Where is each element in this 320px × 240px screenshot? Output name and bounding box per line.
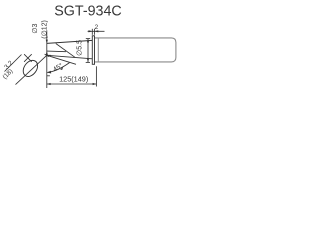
angle arc [47,63,69,73]
cone bottom edge [47,55,93,59]
ring (front collar) [92,36,94,65]
svg-text:2: 2 [95,24,99,31]
bevel edge line [47,50,66,53]
arrow 125 left [47,83,51,85]
bevel face ellipse [20,58,40,80]
bevel cut diagonal [56,44,75,58]
tick at junction [47,54,51,56]
tick at diagonal start [45,54,49,57]
arrow d5.5 bottom [87,59,89,63]
svg-text:∅3: ∅3 [32,24,39,34]
arrow d3 bottom [46,51,48,55]
tick d5.5 top [86,38,90,40]
arrow 2 right [95,30,99,32]
barrel front seam [97,38,99,62]
dim line d3 / left extension (vertical at tip end) [46,30,48,88]
barrel (handle sleeve) [95,38,176,62]
cross mark above ellipse [24,54,32,62]
tick d5.5 bottom [86,61,90,63]
leader line for 3.2/(18) labels [5,55,22,72]
arrow 2 left [89,30,93,32]
arrow d5.5 top [87,39,89,43]
angle leg line [47,55,76,64]
svg-text:(∅12): (∅12) [42,20,49,39]
arrow arc right [60,67,63,70]
dim 125(149): extension right [95,66,97,86]
svg-text:SGT-934C: SGT-934C [54,3,122,19]
arrow arc left [47,71,51,74]
svg-text:(18): (18) [1,68,14,81]
tick on extension line [47,75,50,77]
svg-text:∅5.5: ∅5.5 [76,40,83,56]
dim 2: extension right [94,29,96,35]
dim 2: extension left [91,29,93,35]
dim line d5.5 [87,39,89,63]
cone top edge [47,40,93,43]
dim 125 line [47,83,97,85]
arrow 125 right [93,83,97,85]
svg-text:45°: 45° [52,61,65,73]
dim 2 line [88,30,105,32]
svg-text:125(149): 125(149) [59,74,88,83]
diagonal 45 centerline [16,55,47,84]
arrow d3 top [46,40,48,44]
